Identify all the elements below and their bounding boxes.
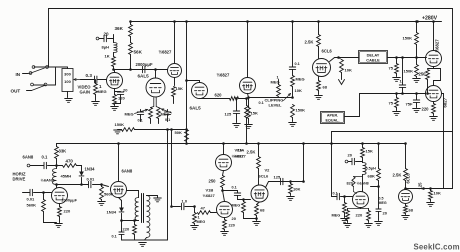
svg-text:45MH: 45MH: [61, 174, 72, 179]
svg-text:GAIN: GAIN: [80, 90, 90, 95]
svg-text:220: 220: [356, 213, 363, 218]
svg-text:0.1: 0.1: [232, 186, 237, 190]
svg-text:125: 125: [274, 175, 281, 180]
svg-text:MEG: MEG: [161, 112, 170, 117]
svg-text:½6AN8: ½6AN8: [357, 182, 369, 186]
svg-text:56K: 56K: [134, 50, 143, 55]
svg-text:36K: 36K: [115, 26, 124, 31]
svg-text:1N34: 1N34: [107, 210, 117, 215]
svg-text:470: 470: [66, 159, 74, 164]
svg-text:20: 20: [104, 32, 110, 37]
svg-text:IN: IN: [16, 72, 21, 77]
svg-text:0.1: 0.1: [295, 62, 300, 66]
svg-text:8μH: 8μH: [102, 45, 110, 50]
svg-text:20: 20: [383, 211, 388, 216]
svg-text:CABLE: CABLE: [366, 58, 380, 63]
svg-text:620: 620: [215, 93, 223, 98]
svg-text:½6827: ½6827: [435, 39, 440, 53]
svg-text:½6AN8: ½6AN8: [41, 178, 55, 183]
svg-text:250: 250: [209, 179, 217, 184]
svg-text:6CL6: 6CL6: [406, 173, 411, 184]
svg-text:10K: 10K: [434, 191, 441, 196]
svg-text:125: 125: [225, 112, 232, 117]
svg-text:MEG: MEG: [296, 77, 305, 82]
svg-text:47: 47: [201, 206, 206, 211]
svg-text:68: 68: [323, 85, 328, 90]
svg-text:68: 68: [260, 208, 265, 213]
svg-text:½6827: ½6827: [203, 193, 216, 198]
svg-text:MEG: MEG: [125, 112, 134, 117]
svg-text:0.1: 0.1: [259, 101, 264, 105]
svg-text:SeekIC.com: SeekIC.com: [414, 243, 460, 252]
svg-text:10K: 10K: [295, 88, 302, 93]
svg-text:33K: 33K: [59, 149, 67, 154]
svg-text:MEG: MEG: [197, 220, 206, 224]
svg-text:250: 250: [419, 72, 427, 77]
svg-text:220: 220: [229, 224, 235, 228]
svg-text:MEG: MEG: [98, 89, 107, 94]
svg-text:0.01: 0.01: [27, 197, 36, 202]
svg-text:LEVEL: LEVEL: [269, 103, 282, 108]
svg-text:68K: 68K: [368, 174, 375, 179]
svg-text:V1A: V1A: [237, 148, 245, 153]
svg-text:OUT: OUT: [11, 89, 21, 94]
svg-text:DRIVE: DRIVE: [13, 177, 26, 182]
svg-text:½6827: ½6827: [217, 73, 230, 78]
svg-text:6CL6: 6CL6: [259, 174, 270, 179]
svg-text:150K: 150K: [403, 36, 413, 41]
svg-text:6827: 6827: [443, 97, 448, 107]
svg-text:10K: 10K: [345, 68, 352, 73]
svg-text:75: 75: [389, 101, 394, 106]
svg-text:5.5μH: 5.5μH: [366, 167, 377, 171]
svg-text:0.01: 0.01: [87, 177, 96, 182]
svg-text:½6827: ½6827: [234, 154, 247, 159]
svg-text:20: 20: [123, 88, 128, 93]
svg-text:150K: 150K: [296, 108, 306, 113]
svg-text:10K: 10K: [293, 187, 300, 192]
svg-text:6AL5: 6AL5: [190, 106, 202, 111]
svg-text:560K: 560K: [27, 203, 37, 208]
svg-text:2.5K: 2.5K: [247, 150, 256, 155]
svg-text:68: 68: [409, 208, 414, 213]
svg-text:6AL5: 6AL5: [138, 74, 150, 79]
svg-text:150K: 150K: [404, 69, 414, 74]
svg-text:2000μμF: 2000μμF: [136, 62, 153, 67]
svg-text:2.5K: 2.5K: [393, 173, 402, 178]
svg-text:0.3: 0.3: [86, 73, 93, 78]
svg-text:15K: 15K: [176, 86, 183, 91]
svg-text:½6827: ½6827: [159, 50, 172, 55]
svg-text:1.0: 1.0: [182, 199, 188, 204]
svg-text:APER.: APER.: [327, 114, 338, 118]
svg-text:MEG: MEG: [271, 80, 280, 85]
svg-text:220: 220: [422, 107, 430, 112]
svg-text:MEG: MEG: [232, 204, 241, 208]
svg-text:+280V: +280V: [422, 16, 438, 22]
svg-text:V2: V2: [265, 168, 271, 173]
svg-text:6CL6: 6CL6: [322, 49, 333, 54]
svg-text:0.1: 0.1: [112, 235, 117, 239]
svg-text:100: 100: [64, 79, 71, 84]
svg-text:150K: 150K: [115, 122, 125, 127]
svg-text:MEG: MEG: [332, 214, 341, 218]
svg-text:15K: 15K: [366, 149, 373, 154]
svg-text:V1B: V1B: [206, 188, 214, 193]
svg-text:6AN8: 6AN8: [122, 169, 133, 174]
svg-text:220: 220: [123, 227, 130, 232]
svg-text:1N34: 1N34: [85, 167, 96, 172]
svg-text:0.1: 0.1: [138, 119, 143, 123]
svg-text:50K: 50K: [175, 130, 182, 135]
svg-text:0.1: 0.1: [42, 155, 48, 160]
svg-text:20: 20: [232, 216, 237, 221]
svg-text:MEG: MEG: [379, 201, 387, 205]
svg-text:75: 75: [389, 66, 394, 71]
svg-text:EQUAL.: EQUAL.: [326, 119, 340, 123]
svg-text:2.5K: 2.5K: [305, 40, 314, 45]
svg-text:0.1: 0.1: [333, 192, 338, 196]
svg-text:20: 20: [348, 153, 353, 158]
svg-text:75F: 75F: [406, 102, 413, 107]
svg-text:125: 125: [418, 182, 423, 190]
svg-text:2000μμF: 2000μμF: [62, 199, 78, 203]
svg-text:220: 220: [64, 209, 71, 214]
svg-text:15K: 15K: [251, 111, 258, 116]
svg-text:0.5: 0.5: [379, 197, 384, 201]
svg-text:6AN8: 6AN8: [23, 155, 34, 160]
svg-text:300: 300: [64, 72, 71, 77]
svg-text:1K: 1K: [105, 54, 110, 59]
svg-text:0.1: 0.1: [165, 118, 170, 122]
svg-text:120: 120: [118, 96, 125, 101]
